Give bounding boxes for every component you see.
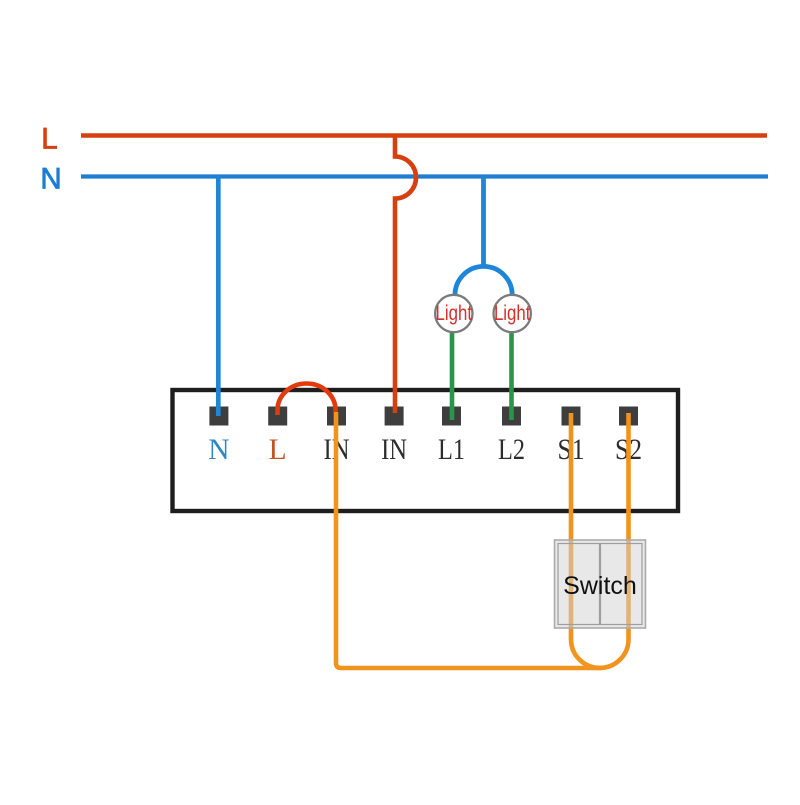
- svg-text:L: L: [269, 434, 287, 466]
- wire N drop to terminal N: [216, 177, 221, 417]
- wire N bus: [81, 174, 768, 178]
- terminal S1: [562, 407, 581, 426]
- terminal L2: [502, 407, 521, 426]
- terminal IN1: [327, 407, 346, 426]
- terminal N: [209, 407, 228, 426]
- wire lamp1 to L1: [450, 320, 455, 420]
- svg-text:L2: L2: [498, 434, 525, 466]
- terminal L: [268, 407, 287, 426]
- lamp DS2: [494, 295, 531, 332]
- terminal S2: [619, 407, 638, 426]
- wire lamp2 to L2: [509, 320, 514, 420]
- svg-text:Switch: Switch: [563, 572, 637, 600]
- wire IN1 to switch loop: [336, 412, 601, 668]
- wire S1-S2 loop through switch: [571, 413, 629, 668]
- wire N branch to lamps: [481, 177, 486, 268]
- jumper L to IN1: [278, 384, 336, 415]
- wire lamp arch: [455, 266, 512, 295]
- svg-text:L1: L1: [438, 434, 465, 466]
- switch SW1: [555, 540, 646, 628]
- svg-text:L: L: [41, 123, 57, 156]
- terminal L1: [442, 407, 461, 426]
- lamp DS1: [435, 295, 472, 332]
- device box U1: [173, 390, 679, 511]
- svg-text:IN: IN: [381, 434, 407, 466]
- svg-text:Light: Light: [436, 302, 473, 325]
- wire L bus: [81, 133, 767, 138]
- terminal IN2: [385, 407, 404, 426]
- svg-text:N: N: [40, 163, 61, 196]
- svg-text:Light: Light: [494, 302, 531, 325]
- svg-text:N: N: [208, 434, 229, 466]
- wire L drop to terminal IN2 with hop over N bus: [395, 136, 416, 414]
